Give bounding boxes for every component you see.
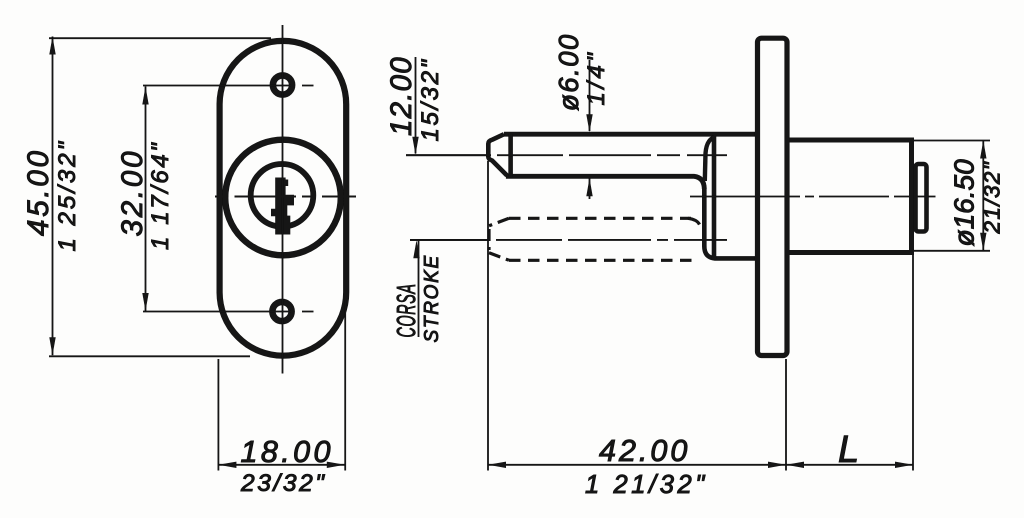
pin centerline (solid position) xyxy=(406,154,727,156)
dimension 12.00 (stroke) xyxy=(406,57,490,337)
dimension text 45.00 xyxy=(22,139,81,252)
dimension o16.50 (body diameter) xyxy=(913,141,990,251)
svg-text:CORSA: CORSA xyxy=(393,283,422,337)
dimension text 32.00 xyxy=(116,141,174,250)
dashed pin bottom line (extended position) xyxy=(509,259,697,262)
svg-text:32.00: 32.00 xyxy=(116,149,149,237)
vertical centerline of faceplate xyxy=(282,25,284,374)
screw hole top xyxy=(273,75,292,94)
faceplate outline (left view oval) xyxy=(220,41,347,356)
rear collar xyxy=(916,164,927,232)
svg-text:1 21/32": 1 21/32" xyxy=(585,471,708,499)
horizontal centerline of cylinder xyxy=(215,196,356,198)
plunger pin top line + body top line (left of flange) xyxy=(504,132,755,137)
screw hole bottom xyxy=(272,302,291,321)
svg-text:L: L xyxy=(838,429,861,471)
mounting flange plate xyxy=(758,38,788,355)
dimension text o16.50 xyxy=(949,159,1005,247)
svg-text:23/32": 23/32" xyxy=(240,470,327,497)
dashed pin nose (extended position) xyxy=(489,218,509,260)
plunger pin bottom line with fillet to body face xyxy=(506,176,704,189)
svg-text:STROKE: STROKE xyxy=(421,254,444,342)
lock body (right of flange) xyxy=(787,140,912,253)
svg-text:ø6.00: ø6.00 xyxy=(553,33,584,111)
dimension 32.00 line xyxy=(142,87,148,312)
pin centerline (extended position) xyxy=(410,239,727,241)
centerline of bottom screw hole xyxy=(143,311,314,313)
body face edge line xyxy=(712,136,717,258)
dimension 42.00 and L extension lines xyxy=(488,161,913,471)
svg-text:42.00: 42.00 xyxy=(599,434,690,468)
body dome arc lower and bottom line xyxy=(704,189,756,258)
svg-text:15/32": 15/32" xyxy=(417,57,444,141)
dimension 18.00 line xyxy=(218,300,345,471)
svg-text:45.00: 45.00 xyxy=(22,148,55,236)
svg-text:1 17/64": 1 17/64" xyxy=(147,141,174,250)
svg-text:21/32": 21/32" xyxy=(980,161,1005,235)
dimension o6.00 (pin diameter) xyxy=(586,60,592,199)
dimension 45.00 line xyxy=(49,37,271,357)
svg-text:12.00: 12.00 xyxy=(385,56,418,136)
dimension text 42.00 xyxy=(585,429,861,499)
plunger pin nose xyxy=(488,134,510,176)
dashed pin top line (extended position) xyxy=(509,217,691,220)
centerline of top screw hole xyxy=(143,85,314,87)
cylinder plug circle xyxy=(251,164,314,227)
body dome arc upper xyxy=(705,137,715,181)
dimension text o6.00 xyxy=(553,33,610,111)
cylinder outer circle xyxy=(225,140,341,256)
label CORSA / STROKE xyxy=(393,254,443,342)
svg-text:18.00: 18.00 xyxy=(241,435,334,469)
svg-text:ø16.50: ø16.50 xyxy=(949,159,980,247)
main body centerline xyxy=(690,196,936,198)
dimension text 12.00 xyxy=(385,56,444,141)
svg-text:1 25/32": 1 25/32" xyxy=(54,139,81,252)
keyway (black key slot) xyxy=(271,178,294,235)
dimension text 18.00 xyxy=(240,435,334,497)
svg-text:1/4": 1/4" xyxy=(583,50,610,106)
